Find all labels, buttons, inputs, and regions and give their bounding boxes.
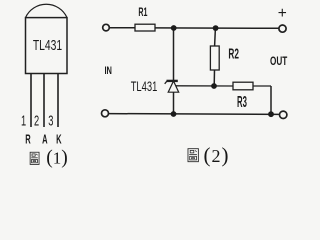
svg-text:R1: R1 <box>138 6 148 19</box>
svg-text:2: 2 <box>34 112 39 129</box>
svg-text:(1): (1) <box>46 147 68 168</box>
svg-text:+: + <box>278 5 287 22</box>
svg-text:TL431: TL431 <box>33 36 62 54</box>
svg-text:R: R <box>25 134 31 147</box>
svg-text:IN: IN <box>104 63 112 76</box>
svg-text:3: 3 <box>48 112 53 129</box>
svg-text:R2: R2 <box>228 45 239 62</box>
svg-text:A: A <box>42 134 48 147</box>
svg-text:OUT: OUT <box>270 54 288 68</box>
svg-text:1: 1 <box>21 112 26 129</box>
svg-text:(2): (2) <box>204 143 229 167</box>
svg-text:TL431: TL431 <box>131 78 158 94</box>
svg-text:K: K <box>56 134 62 147</box>
svg-text:R3: R3 <box>237 93 247 111</box>
